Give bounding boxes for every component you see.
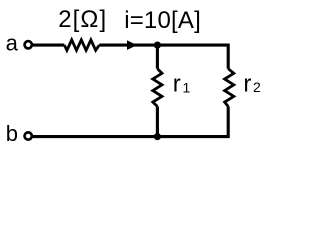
svg-text:r: r xyxy=(173,70,181,97)
svg-text:2[Ω]: 2[Ω] xyxy=(58,6,107,33)
svg-text:i=10[A]: i=10[A] xyxy=(124,7,201,34)
svg-text:2: 2 xyxy=(253,79,261,95)
svg-text:1: 1 xyxy=(183,80,191,96)
svg-text:b: b xyxy=(6,121,18,146)
svg-text:a: a xyxy=(6,31,19,56)
svg-text:r: r xyxy=(243,70,251,97)
